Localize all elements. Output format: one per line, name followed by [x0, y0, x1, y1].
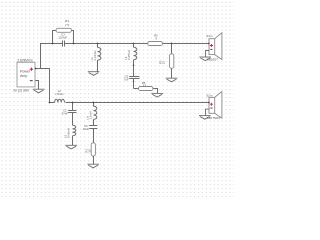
wire: amp + lead to feed node: [35, 68, 50, 70]
capacitor C1 (series on top rail): [63, 41, 65, 47]
svg-text:10.9uF: 10.9uF: [58, 35, 67, 39]
svg-text:16: 16: [88, 149, 92, 153]
svg-text:2.828Vrms: 2.828Vrms: [17, 59, 33, 63]
svg-text:0.60mH: 0.60mH: [67, 128, 71, 138]
speaker S2m (woofer): [209, 91, 222, 118]
svg-text:7uF: 7uF: [124, 78, 129, 82]
node: top rail / R4 left: [52, 43, 54, 45]
power amp U1: [17, 62, 35, 87]
node: amp plus terminal: [35, 68, 37, 70]
ground: below L1: [88, 72, 100, 76]
svg-text:1.5mH: 1.5mH: [89, 111, 93, 119]
svg-text:0.24mH: 0.24mH: [93, 51, 97, 61]
wire: drop from feed node to bottom rail: [49, 69, 51, 104]
ground: amp minus: [33, 89, 45, 93]
node: woofer input: [208, 102, 210, 104]
ground: woofer: [199, 116, 211, 120]
capacitor C5: [129, 77, 139, 89]
svg-text:SB26ST: SB26ST: [207, 57, 218, 61]
inductor L5 (shunt chain): [134, 44, 137, 77]
ground: below R3: [166, 78, 178, 82]
node: L5 lower terminal: [133, 65, 135, 67]
node: top rail / R3: [171, 43, 173, 45]
node: bottom rail / L4 branch: [93, 102, 95, 104]
wire: tweeter minus to ground: [206, 51, 210, 58]
svg-text:13: 13: [143, 83, 147, 87]
inductor L3: [73, 125, 76, 145]
svg-text:for (2) ohm: for (2) ohm: [14, 88, 30, 92]
node: bottom rail / C2 branch: [72, 102, 74, 104]
wire: woofer minus to ground: [206, 109, 210, 116]
capacitor C3: [89, 126, 97, 143]
speaker S4m (tweeter): [209, 33, 222, 60]
svg-text:15: 15: [161, 61, 165, 65]
resistor R1 (vertical): [91, 143, 95, 164]
ground: tweeter: [199, 57, 211, 61]
node: top rail / L5: [133, 43, 135, 45]
ground: below L3: [65, 145, 77, 149]
resistor R3 (shunt to ground): [170, 44, 174, 79]
svg-text:S2m: S2m: [206, 94, 213, 98]
resistor R5: [134, 87, 158, 94]
resistor R4 (parallel with C1): [53, 28, 74, 43]
svg-text:SB17NRX: SB17NRX: [207, 116, 221, 120]
inductor L4 (shunt chain): [94, 103, 97, 126]
svg-text:Power: Power: [20, 69, 31, 73]
resistor R2 (series on top rail): [148, 42, 163, 46]
node: top rail / L1: [97, 43, 99, 45]
node: top rail / R4 right: [73, 43, 75, 45]
svg-text:10uF: 10uF: [83, 127, 90, 131]
node: C5 lower terminal: [133, 81, 134, 82]
wire: riser from amp + node up to top rail: [40, 44, 42, 69]
wire: bottom rail left stub into L2: [49, 102, 55, 104]
svg-text:27uF: 27uF: [62, 112, 69, 116]
inductor L1 (shunt to ground): [98, 44, 101, 72]
ground: below R5: [151, 93, 163, 97]
junction dots: [35, 43, 210, 104]
svg-text:1.5mH: 1.5mH: [55, 92, 63, 96]
node: feed corner: [49, 102, 51, 104]
wire: bottom rail from L2 to woofer: [66, 102, 210, 104]
node: tweeter input: [208, 43, 210, 45]
wire: top rail left segment (amp riser to C1 left plate): [40, 43, 63, 45]
svg-text:7.5: 7.5: [65, 23, 69, 27]
capacitor C2 (shunt chain): [68, 103, 76, 126]
svg-text:0.45mH: 0.45mH: [127, 50, 131, 60]
wire: amp - lead: [35, 81, 39, 90]
ground: below R1: [87, 164, 99, 168]
svg-text:S4m: S4m: [206, 34, 213, 38]
svg-text:Amp: Amp: [20, 74, 27, 78]
inductor L2 (series on bottom rail): [55, 99, 65, 102]
wire: top rail mid segment (C1 right plate to tweeter): [65, 43, 210, 45]
